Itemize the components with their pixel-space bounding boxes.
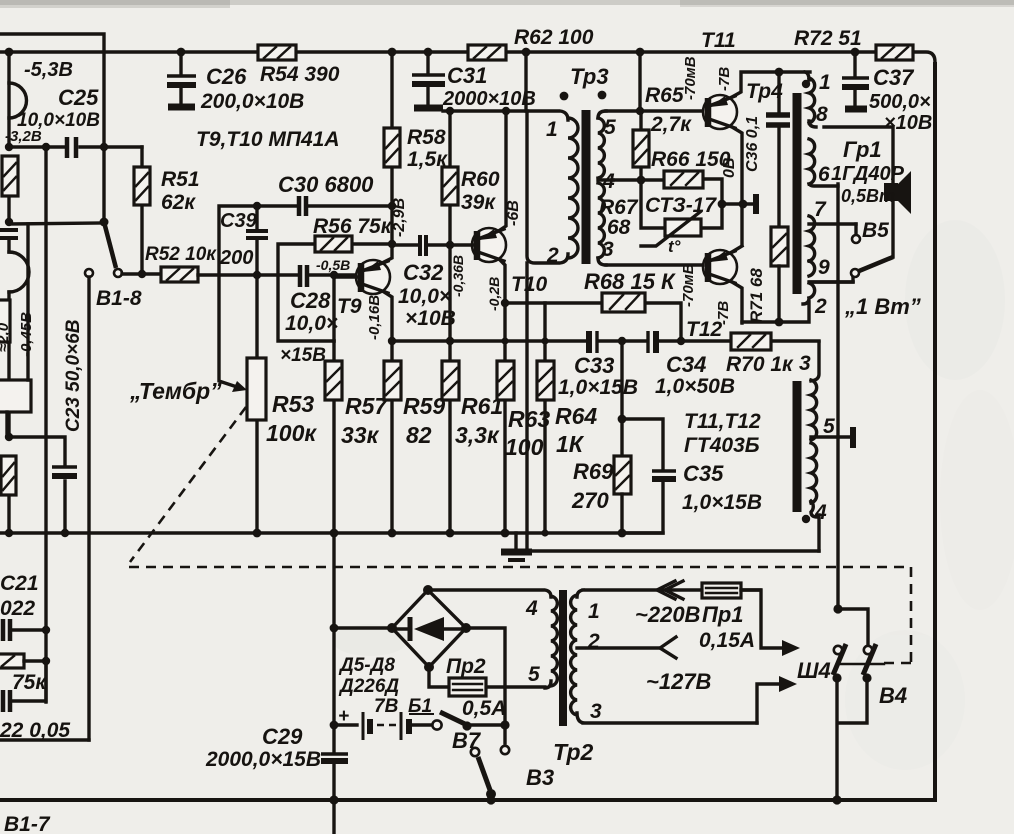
svg-text:0,5А: 0,5А <box>462 697 506 720</box>
resistor R51 <box>134 147 200 275</box>
svg-text:2: 2 <box>587 630 600 653</box>
wiper wire from C39 node to pot R53 <box>219 206 257 392</box>
transistor T11 <box>703 95 737 129</box>
switch B3 <box>471 746 554 800</box>
svg-text:3: 3 <box>602 238 614 261</box>
resistor R56 with loop <box>278 215 393 341</box>
scan background texture <box>332 220 1014 770</box>
svg-text:С39: С39 <box>220 210 258 232</box>
svg-text:С37: С37 <box>873 65 915 90</box>
thermistor R67 CT3-17 <box>641 194 717 256</box>
svg-text:0,15А: 0,15А <box>699 629 755 652</box>
component box (left edge) <box>0 300 10 342</box>
resistor (left edge, unlabeled) <box>2 156 18 196</box>
wire B1-8 to R52 <box>122 272 161 275</box>
resistor R71 <box>747 227 788 323</box>
component box (left edge lower) <box>0 380 31 412</box>
svg-text:-70мВ: -70мВ <box>682 56 699 100</box>
svg-text:3: 3 <box>590 700 602 723</box>
svg-text:10,0×: 10,0× <box>285 312 338 335</box>
svg-text:39к: 39к <box>461 191 496 214</box>
ground bus wire y=533 <box>0 531 663 534</box>
speaker feed wire pin8 <box>824 127 893 183</box>
svg-text:С28: С28 <box>290 288 331 313</box>
svg-text:270: 270 <box>571 488 609 513</box>
capacitor C31 <box>412 52 536 110</box>
transistor T9 <box>334 260 390 318</box>
top-left box wire <box>0 34 104 222</box>
svg-text:СТЗ-17: СТЗ-17 <box>645 194 717 217</box>
capacitor C23 <box>9 319 84 537</box>
svg-text:×10В: ×10В <box>405 307 456 330</box>
capacitor C36 <box>766 72 790 227</box>
resistor R59 <box>384 341 445 533</box>
T9 collector wire <box>384 206 392 262</box>
svg-text:С23 50,0×6В: С23 50,0×6В <box>63 319 84 432</box>
svg-text:1,0×15В: 1,0×15В <box>558 376 638 399</box>
svg-text:4: 4 <box>525 597 538 620</box>
svg-text:С30 6800: С30 6800 <box>278 172 374 197</box>
resistor R69 <box>571 456 631 533</box>
Tr2 core <box>559 590 567 726</box>
transformer Tr4 <box>742 71 856 326</box>
T12 collector wire <box>732 246 742 252</box>
svg-text:33к: 33к <box>341 422 380 448</box>
fuse Pr2 <box>429 655 545 720</box>
svg-text:С21: С21 <box>0 572 39 595</box>
svg-text:200: 200 <box>219 247 253 269</box>
svg-text:-0,2В: -0,2В <box>486 277 502 311</box>
capacitor C25 <box>9 137 142 158</box>
transistor T10 <box>446 228 548 296</box>
wire bus to Tr3 primary loop <box>524 52 527 111</box>
svg-text:2: 2 <box>814 295 827 318</box>
main negative line x=334 <box>332 533 335 834</box>
svg-text:5: 5 <box>823 415 835 438</box>
T12 base wire from Tr3 pin3 <box>606 263 703 266</box>
Tr4 secondary winding 3-5-4 <box>799 342 849 551</box>
potentiometer R53 (Tembr) <box>247 275 317 533</box>
svg-text:1: 1 <box>819 71 831 94</box>
resistor R62 <box>468 26 594 60</box>
capacitor (left edge) <box>0 230 18 238</box>
Tr2 primary winding 1-2-3 <box>571 590 760 723</box>
resistor R68 <box>505 269 681 341</box>
svg-text:×15В: ×15В <box>280 345 326 366</box>
capacitor C33 <box>558 331 638 399</box>
svg-text:6: 6 <box>818 163 830 186</box>
svg-text:-7В: -7В <box>716 67 733 91</box>
resistor R65 <box>633 84 692 180</box>
svg-text:62к: 62к <box>161 191 196 214</box>
svg-text:R62 100: R62 100 <box>514 26 594 49</box>
Tr3 pin2 return wire <box>527 263 819 551</box>
svg-text:5: 5 <box>604 116 616 139</box>
emitter feedback line y=341 <box>392 339 819 342</box>
svg-text:Тр3: Тр3 <box>570 64 609 89</box>
wire pin3 to plug arrow lower <box>757 684 779 723</box>
capacitor C28 <box>280 265 338 366</box>
svg-text:R72 51: R72 51 <box>794 27 862 50</box>
capacitor C29 <box>205 724 348 771</box>
svg-text:≈2,0: ≈2,0 <box>0 322 12 352</box>
Tr4 core <box>793 93 802 294</box>
T11 collector wire to Tr4 pin1 <box>732 72 810 97</box>
svg-text:1ГД40Р: 1ГД40Р <box>831 163 905 185</box>
plug arrow lower <box>779 676 797 692</box>
svg-text:-5,3В: -5,3В <box>24 59 73 81</box>
svg-text:С32: С32 <box>403 260 444 285</box>
svg-text:В3: В3 <box>526 765 554 790</box>
svg-text:1,0×15В: 1,0×15В <box>682 491 762 514</box>
T12 emitter wire <box>732 282 742 323</box>
svg-text:1: 1 <box>546 118 558 141</box>
bridge rectifier D5-D8 <box>330 585 471 697</box>
Tr4 winding 1-8 <box>805 72 816 127</box>
capacitor C34 <box>648 331 735 398</box>
svg-text:×10В: ×10В <box>884 112 932 134</box>
dashed mech link horizontal <box>129 567 911 663</box>
T11 emitter wire down <box>732 127 742 245</box>
ground stub bar 0V <box>753 194 759 214</box>
capacitor C21 <box>0 572 50 641</box>
svg-text:Д226Д: Д226Д <box>338 676 399 697</box>
transformer Tr2 <box>428 590 760 765</box>
svg-text:8: 8 <box>816 103 828 126</box>
svg-text:В1-8: В1-8 <box>96 287 142 310</box>
svg-text:R58: R58 <box>407 126 446 149</box>
svg-text:В1-7: В1-7 <box>4 813 51 834</box>
svg-text:С34: С34 <box>666 352 706 377</box>
svg-text:R56 75к: R56 75к <box>313 215 393 238</box>
resistor R52 <box>145 244 217 282</box>
svg-text:1: 1 <box>588 600 600 623</box>
ground stub bar pin5 <box>850 427 856 448</box>
svg-text:-7В: -7В <box>715 301 732 325</box>
capacitor C22 <box>0 661 70 742</box>
svg-text:10,0×: 10,0× <box>398 285 451 308</box>
capacitor C32 <box>392 235 456 330</box>
svg-text:Тр2: Тр2 <box>553 739 594 765</box>
svg-text:+: + <box>338 706 349 727</box>
bridge plus wire to battery line <box>466 628 505 743</box>
switch B1-8 <box>85 218 142 311</box>
resistor R58 <box>384 52 448 206</box>
transistor T12 <box>686 250 737 341</box>
svg-text:R59: R59 <box>403 393 445 419</box>
svg-text:022: 022 <box>0 597 35 620</box>
svg-text:„Тембр”: „Тембр” <box>129 378 222 404</box>
resistor R64 <box>537 303 597 533</box>
svg-text:С33: С33 <box>574 353 614 378</box>
svg-text:3: 3 <box>799 352 811 375</box>
wire bus to R65 <box>638 52 641 111</box>
svg-text:7: 7 <box>814 198 827 221</box>
fuse Pr1 <box>699 583 755 652</box>
svg-text:-3,2В: -3,2В <box>5 128 42 145</box>
svg-text:1К: 1К <box>556 431 585 457</box>
dashed mech link diagonal <box>130 407 246 562</box>
svg-text:200,0×10В: 200,0×10В <box>200 90 304 113</box>
svg-text:В4: В4 <box>879 683 907 708</box>
svg-text:Т10: Т10 <box>511 273 548 296</box>
resistor (left edge, above bus) <box>1 456 16 495</box>
Tr3 primary winding 1-2 <box>527 111 568 263</box>
svg-text:5: 5 <box>528 663 540 686</box>
resistor R60 <box>442 111 500 245</box>
svg-text:R57: R57 <box>345 393 388 419</box>
svg-text:Т11: Т11 <box>701 29 736 52</box>
svg-text:2000×10В: 2000×10В <box>442 88 536 110</box>
svg-text:2,7к: 2,7к <box>650 113 692 136</box>
svg-text:В5: В5 <box>862 219 889 242</box>
svg-text:-0,5В: -0,5В <box>316 257 350 273</box>
bus junction dots y=533 <box>253 529 627 538</box>
Tr4 winding 7-9 <box>809 216 856 276</box>
bottom rail wire <box>0 798 937 802</box>
T9 emitter wire <box>384 292 392 341</box>
right border wire <box>933 62 937 800</box>
resistor R61 <box>442 341 503 533</box>
svg-text:100к: 100к <box>266 420 317 446</box>
svg-text:75к: 75к <box>12 671 47 694</box>
top supply bus wire <box>0 52 935 62</box>
wire from box to node <box>5 412 8 437</box>
Tr2 secondary winding 4-5 <box>428 590 557 688</box>
svg-text:9: 9 <box>818 256 830 279</box>
capacitor C26 <box>167 52 304 113</box>
svg-text:R64: R64 <box>555 403 597 429</box>
switch B7 <box>432 712 505 753</box>
svg-text:С35: С35 <box>683 461 724 486</box>
svg-text:R70 1к: R70 1к <box>726 353 794 376</box>
svg-text:С26: С26 <box>206 64 247 89</box>
svg-text:С25: С25 <box>58 85 99 110</box>
svg-text:С31: С31 <box>447 63 487 88</box>
svg-text:2: 2 <box>546 244 559 267</box>
Tr4 secondary core <box>793 381 802 512</box>
svg-text:4: 4 <box>814 501 827 524</box>
svg-text:Т9: Т9 <box>337 295 362 318</box>
dashed schematic border bottom-left label line <box>329 795 495 804</box>
svg-text:~220В: ~220В <box>635 602 701 627</box>
svg-text:-70мВ: -70мВ <box>680 263 697 307</box>
resistor R66 <box>651 148 731 188</box>
switch B4 <box>832 604 907 804</box>
resistor R54 <box>258 45 340 86</box>
bias node wires R66/R67 <box>613 176 754 228</box>
capacitor C39 <box>219 206 268 275</box>
svg-text:Т9,Т10 МП41А: Т9,Т10 МП41А <box>196 128 339 151</box>
T9 base node wire down <box>332 277 335 341</box>
resistor 75k (left edge) <box>0 654 50 694</box>
svg-text:R52 10к: R52 10к <box>145 244 217 265</box>
127V tap chevron <box>646 637 712 694</box>
svg-text:R54 390: R54 390 <box>260 63 340 86</box>
wire mid node down to R69 <box>620 341 623 456</box>
switch B5 <box>851 219 893 281</box>
svg-text:R53: R53 <box>272 391 314 417</box>
resistor R57 <box>325 341 388 533</box>
wire x=88 from B1-8 contact down <box>87 277 90 740</box>
svg-text:100: 100 <box>505 434 544 460</box>
svg-text:0,5Вт: 0,5Вт <box>841 186 895 206</box>
svg-text:ГТ403Б: ГТ403Б <box>684 434 760 457</box>
tone network box wire <box>0 738 89 741</box>
capacitor C35 <box>622 419 762 533</box>
svg-text:R66 150: R66 150 <box>651 148 731 171</box>
svg-text:Пр1: Пр1 <box>702 602 744 627</box>
Tr4 winding 9-2 <box>742 282 853 322</box>
svg-text:-0,16В: -0,16В <box>366 295 383 340</box>
transistor (left edge, cut) <box>9 83 29 292</box>
battery B1 <box>330 696 434 740</box>
jumper pin6-pin9 wire down <box>810 184 853 282</box>
svg-text:7В: 7В <box>374 696 399 717</box>
resistor R70 <box>726 333 794 376</box>
wire pin6/9 down to B4 <box>836 282 839 609</box>
T10 collector wire <box>500 111 506 230</box>
Tr3 secondary winding 5-4-3 <box>598 118 604 178</box>
svg-text:Гр1: Гр1 <box>843 137 882 162</box>
svg-text:R69: R69 <box>573 459 614 484</box>
svg-text:С36 0,1: С36 0,1 <box>744 116 761 172</box>
svg-text:С29: С29 <box>262 724 303 749</box>
Tr4 winding to 6 <box>809 139 838 186</box>
collector rail wire y=111 <box>443 109 527 112</box>
resistor R63 <box>497 303 550 533</box>
mains plug chevrons 220V <box>635 581 701 627</box>
T10 emitter wire <box>500 260 505 303</box>
junction dots R56 line <box>388 240 396 248</box>
wire main y=275 <box>198 273 356 276</box>
svg-text:82: 82 <box>406 422 432 448</box>
capacitor C37 <box>842 52 932 134</box>
wire y=224 <box>9 223 104 224</box>
wire x=28 down to box <box>26 224 29 380</box>
svg-text:R65: R65 <box>645 84 684 107</box>
ground symbol <box>501 533 532 560</box>
resistor R72 <box>794 27 913 60</box>
svg-text:R60: R60 <box>461 168 500 191</box>
svg-text:t°: t° <box>668 237 681 256</box>
svg-text:R71 68: R71 68 <box>747 268 766 323</box>
node bus dots <box>5 48 860 57</box>
svg-text:Д5-Д8: Д5-Д8 <box>338 655 395 676</box>
svg-text:„1 Вт”: „1 Вт” <box>844 294 921 319</box>
wire fuse to plug arrow upper <box>741 590 782 648</box>
svg-text:-6В: -6В <box>505 200 522 226</box>
svg-text:-0,36В: -0,36В <box>450 255 466 297</box>
Tr3 core <box>582 110 591 264</box>
svg-text:R51: R51 <box>161 168 200 191</box>
svg-text:R68 15 К: R68 15 К <box>584 269 676 294</box>
svg-text:1,0×50В: 1,0×50В <box>655 375 735 398</box>
svg-text:Т11,Т12: Т11,Т12 <box>684 410 761 433</box>
svg-text:2000,0×15В: 2000,0×15В <box>205 748 321 771</box>
svg-text:Ш4: Ш4 <box>797 658 831 683</box>
svg-text:500,0×: 500,0× <box>869 91 931 113</box>
svg-text:Пр2: Пр2 <box>446 655 486 678</box>
T10 base node wire down to R61 <box>448 245 451 341</box>
transformer Tr3 <box>527 64 616 267</box>
capacitor C30 <box>253 172 396 216</box>
svg-text:3,3к: 3,3к <box>455 422 500 448</box>
svg-text:~127В: ~127В <box>646 669 712 694</box>
plug arrow upper <box>782 640 800 656</box>
wire x=46 long vertical <box>44 147 47 702</box>
svg-text:68: 68 <box>607 216 631 239</box>
left column previous-stage parts (cut at edge) <box>5 52 13 537</box>
loudspeaker Gr1 <box>831 137 911 257</box>
base rail T11 wire <box>606 109 703 112</box>
